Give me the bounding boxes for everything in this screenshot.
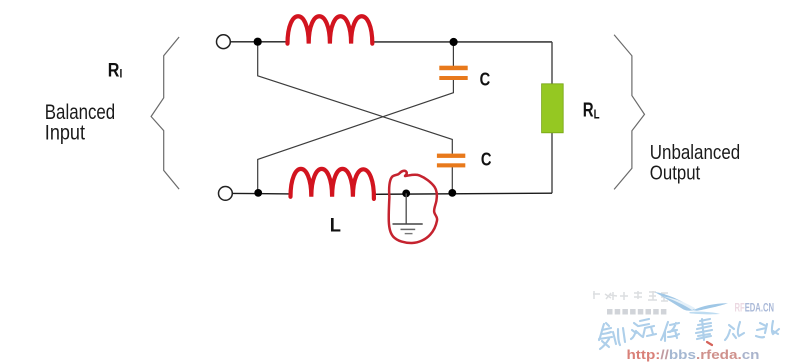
- brace: left (balanced input): [151, 37, 179, 189]
- inductor L (top): [288, 16, 373, 43]
- input terminal (bottom): [219, 187, 233, 201]
- svg-text:RFEDA.CN: RFEDA.CN: [735, 302, 775, 314]
- watermark: row of gray blocks: [607, 309, 666, 315]
- wire: cross link B (top capacitor down, diagonal to bottom-left node): [258, 80, 454, 193]
- wire: top rail left segment (input terminal to L top): [231, 41, 288, 43]
- svg-text:Output: Output: [650, 162, 701, 184]
- annotation: red hand-drawn circle around ground: [389, 171, 437, 243]
- inductor L (bottom): [291, 169, 374, 199]
- svg-text:C: C: [481, 149, 492, 170]
- wire: RL top lead: [551, 42, 553, 84]
- node: top-right junction: [450, 38, 458, 46]
- watermark: bird logo: [655, 292, 729, 314]
- svg-text:RI: RI: [108, 60, 123, 81]
- node: bottom capacitor junction: [448, 189, 456, 197]
- capacitor C (bottom) plates: [437, 154, 465, 168]
- wire: top rail right segment (L top to RL corner): [372, 41, 552, 43]
- input terminal (top): [217, 35, 231, 49]
- svg-text:Balanced: Balanced: [45, 101, 115, 124]
- watermark: small red mark: [707, 342, 712, 345]
- watermark: faint gray caption: [593, 291, 668, 301]
- node: ground junction: [402, 190, 410, 198]
- wire: bottom rail left segment (input terminal to L bottom): [233, 192, 291, 195]
- resistor RL body: [542, 84, 564, 133]
- svg-text:L: L: [330, 215, 342, 236]
- svg-text:http://bbs.rfeda.cn: http://bbs.rfeda.cn: [627, 348, 760, 362]
- node: bottom-left junction: [254, 189, 262, 197]
- wire: top capacitor upper lead from top rail node: [452, 42, 454, 66]
- wire: RL bottom lead: [551, 133, 553, 193]
- watermark: blue calligraphy characters: [599, 319, 779, 349]
- wire: bottom rail right segment (L bottom to RL corner): [373, 193, 552, 194]
- wire: bottom capacitor lower lead to bottom rail: [451, 167, 453, 193]
- svg-text:RL: RL: [583, 100, 600, 122]
- wire: cross link A (top-left node down, diagonal to bottom capacitor): [258, 42, 453, 154]
- svg-text:Input: Input: [45, 122, 85, 145]
- brace: right (unbalanced output): [614, 35, 644, 190]
- svg-text:Unbalanced: Unbalanced: [650, 142, 740, 164]
- node: top-left junction: [254, 38, 262, 46]
- ground: [393, 193, 423, 233]
- svg-text:C: C: [480, 68, 491, 89]
- capacitor C (top) plates: [439, 66, 467, 80]
